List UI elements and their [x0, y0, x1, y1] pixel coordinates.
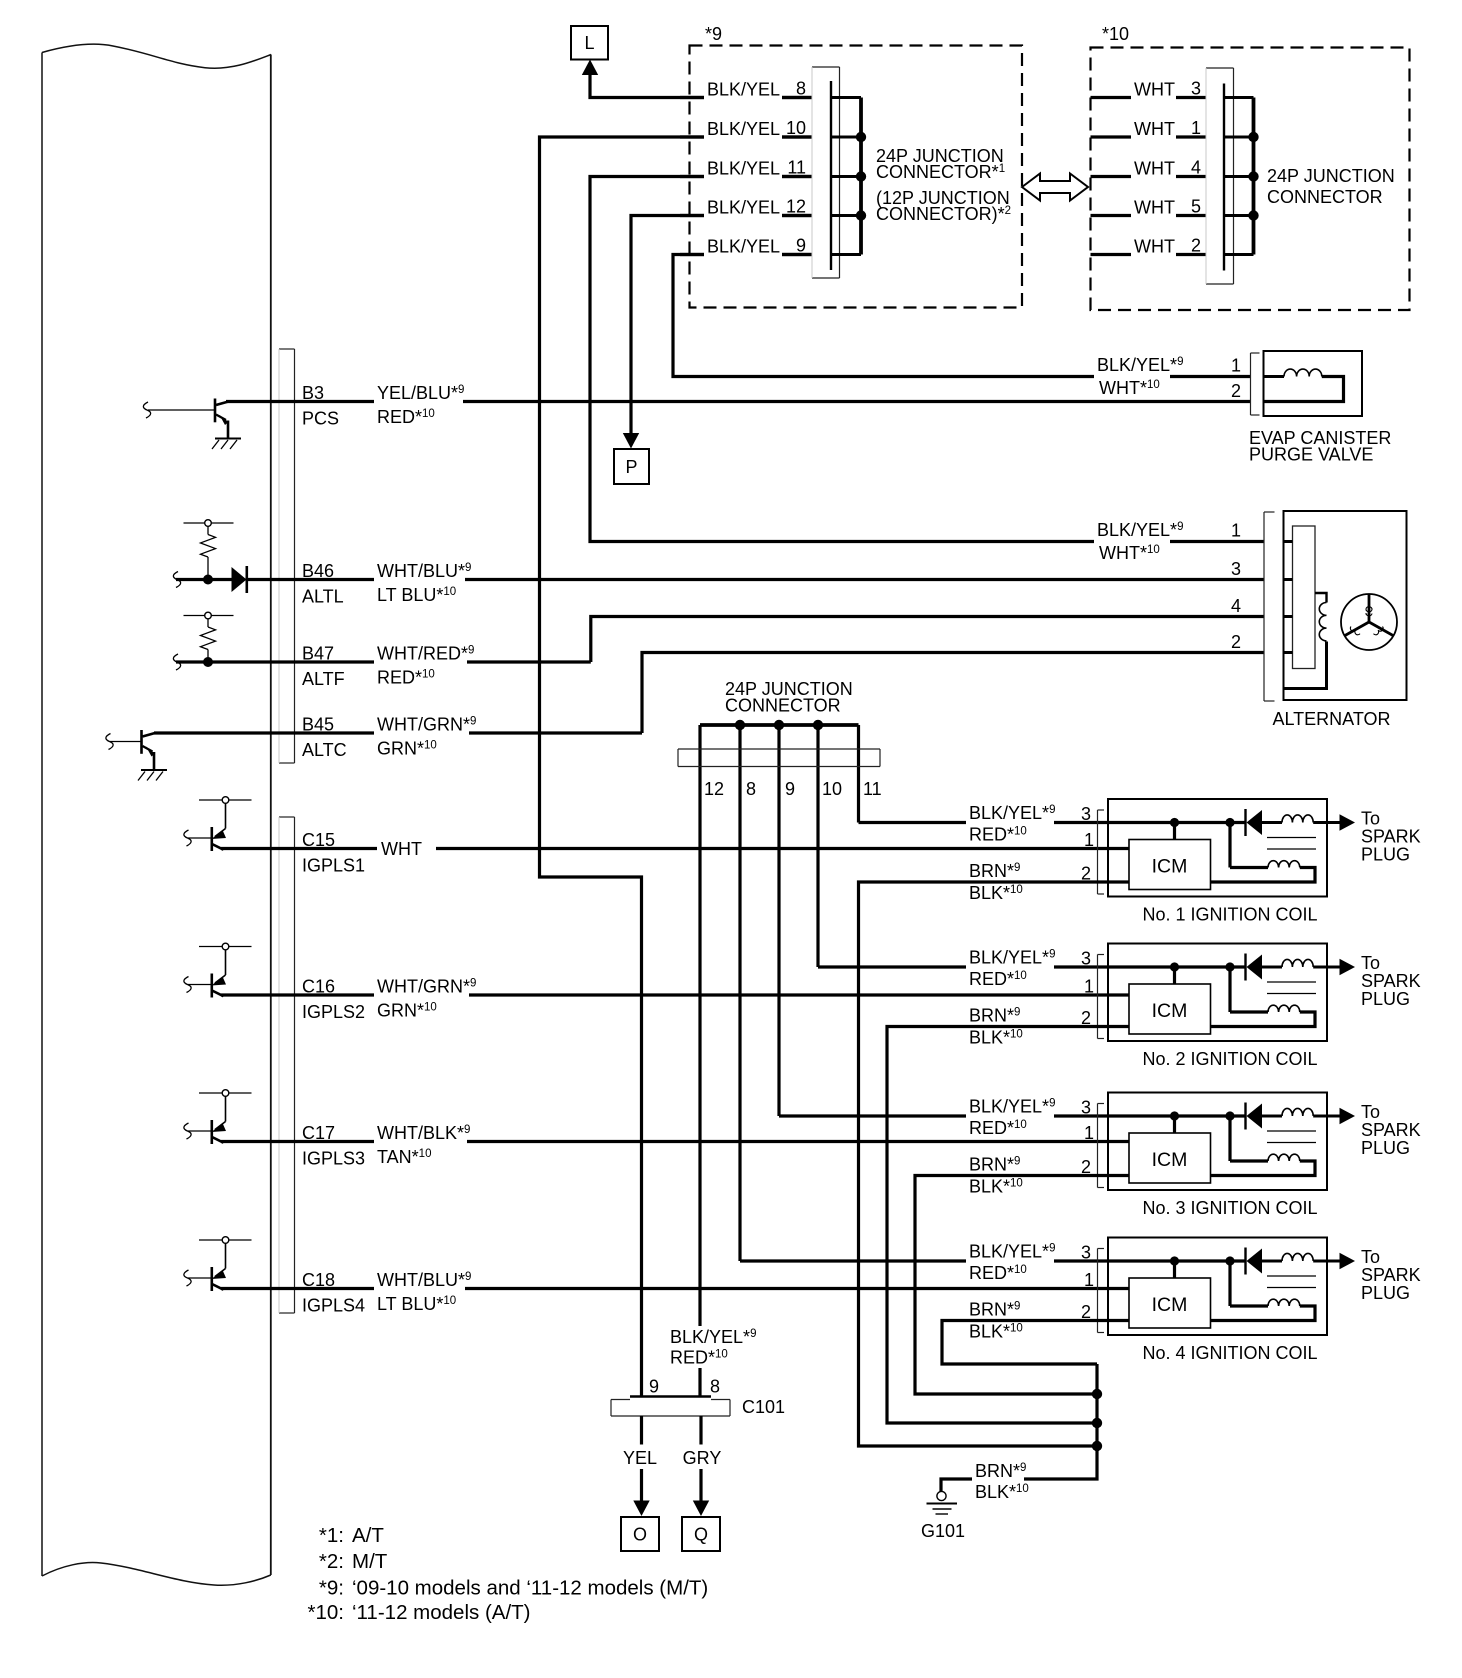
pin number 4 (alternator) — [1231, 596, 1241, 616]
pin number 3 (24P junction rh) — [1191, 79, 1201, 99]
diode (No.3 coil) — [1246, 1103, 1263, 1130]
harness continuation double arrow — [1022, 174, 1088, 201]
dashed harness box *9 — [690, 46, 1023, 308]
svg-text:11: 11 — [787, 158, 806, 178]
svg-text:WHT: WHT — [381, 839, 422, 859]
No.4 ignition coil connector bracket — [1098, 1249, 1105, 1333]
ECM pin label C15/IGPLS1 — [299, 829, 372, 876]
pin number 1 (No.1 coil) — [1084, 830, 1094, 850]
svg-text:WHT: WHT — [1134, 237, 1175, 257]
svg-text:To: To — [1361, 953, 1380, 973]
label No. 2 IGNITION COIL — [1142, 1049, 1317, 1069]
pin number 1 (alternator) — [1231, 521, 1241, 541]
connector O box — [621, 1517, 659, 1551]
svg-text:C15: C15 — [302, 830, 335, 850]
wire C16/IGPLS2 row to No.2 coil pin 1 — [221, 993, 1129, 996]
svg-text:1: 1 — [1084, 830, 1094, 850]
svg-text:SPARK: SPARK — [1361, 1265, 1421, 1285]
wire BLK/YEL pin 12 to connector P — [623, 216, 812, 449]
svg-text:3: 3 — [1191, 79, 1201, 99]
spark plug output arrow (No.4 coil) — [1327, 1253, 1355, 1269]
svg-text:BLK/YEL*9: BLK/YEL*9 — [969, 948, 1055, 968]
alternator field coil — [1284, 593, 1327, 689]
wire BLK/YEL pin 9 to EVAP purge valve pin 1 — [673, 255, 1251, 377]
No.4 ignition coil box — [1108, 1238, 1327, 1336]
label EVAP CANISTER PURGE VALVE — [1249, 428, 1391, 465]
transistor Q-B45 (ALTC driver) — [106, 730, 167, 781]
svg-text:‘11-12 models (A/T): ‘11-12 models (A/T) — [352, 1601, 530, 1624]
No.3 ignition coil connector bracket — [1098, 1104, 1105, 1188]
wire to connector L (BLK/YEL pin 8) — [582, 60, 812, 98]
No.1 ignition coil box — [1108, 799, 1327, 897]
pin number 12 (24P junction) — [786, 197, 806, 217]
svg-text:3: 3 — [1081, 1243, 1091, 1263]
pin number 1 (No.2 coil) — [1084, 977, 1094, 997]
wire junction pin 9 vertical — [777, 725, 780, 1116]
svg-text:IGPLS2: IGPLS2 — [302, 1002, 365, 1022]
svg-text:BLK/YEL*9: BLK/YEL*9 — [1097, 520, 1183, 540]
wire C15/IGPLS1 row to No.1 coil pin 1 — [221, 847, 1129, 850]
wire label BLK/YEL*9 / RED*10 (No.3 coil) — [966, 1096, 1055, 1138]
pin number 1 (No.3 coil) — [1084, 1123, 1094, 1143]
svg-text:WHT/RED*9: WHT/RED*9 — [377, 644, 474, 664]
junction bus bar (middle) — [700, 720, 859, 730]
wire B45 riser to alternator pin 2 — [642, 653, 1264, 734]
wire colour label WHT/BLU*9/LT BLU*10 (B46) — [374, 560, 471, 606]
svg-text:No. 2 IGNITION COIL: No. 2 IGNITION COIL — [1142, 1049, 1317, 1069]
EVAP purge valve connector bracket — [1251, 353, 1260, 415]
svg-text:WHT/BLK*9: WHT/BLK*9 — [377, 1123, 470, 1143]
wire label BLK/YEL (pin 11) — [704, 157, 782, 181]
24P junction connector housing (*9) — [812, 67, 840, 278]
svg-text:PLUG: PLUG — [1361, 845, 1410, 865]
wire C101 pin 8 to connector Q — [693, 1416, 709, 1516]
alternator connector bracket — [1264, 512, 1275, 701]
svg-text:1: 1 — [1084, 1270, 1094, 1290]
No.1 ignition coil connector bracket — [1098, 810, 1105, 894]
wire label WHT (pin 1) — [1131, 118, 1176, 142]
alternator regulator block — [1293, 526, 1316, 669]
pin number 12 (middle junction) — [704, 779, 724, 799]
svg-text:BRN*9: BRN*9 — [969, 1006, 1020, 1026]
svg-text:9: 9 — [796, 236, 806, 256]
label No. 4 IGNITION COIL — [1142, 1343, 1317, 1363]
24P junction connector housing (*10) — [1206, 68, 1234, 284]
No.2 ignition coil box — [1108, 944, 1327, 1042]
wire label WHT (pin 5) — [1131, 196, 1176, 220]
label 24P JUNCTION CONNECTOR (12P JUNCTION CONNECTOR) — [876, 146, 1011, 224]
junction bus bar (*9) — [831, 98, 866, 255]
svg-text:PCS: PCS — [302, 409, 339, 429]
secondary winding (No.3 coil) — [1211, 1116, 1316, 1176]
wire B47/ALTF row — [176, 660, 591, 663]
wire label WHT (pin 2) — [1131, 235, 1176, 259]
wire junction pin 11 vertical — [857, 725, 860, 823]
label No. 3 IGNITION COIL — [1142, 1198, 1317, 1218]
svg-text:SPARK: SPARK — [1361, 1120, 1421, 1140]
svg-text:G101: G101 — [921, 1521, 965, 1541]
svg-text:*9: *9 — [705, 24, 722, 44]
wire B47 riser to alternator pin 4 — [591, 617, 1264, 663]
label 24P JUNCTION CONNECTOR (right) — [1267, 166, 1395, 207]
svg-text:P: P — [625, 457, 637, 477]
svg-text:CONNECTOR: CONNECTOR — [1267, 187, 1383, 207]
label G101 — [921, 1521, 965, 1541]
No.3 ignition coil box — [1108, 1093, 1327, 1191]
primary winding (No.2 coil) — [1262, 959, 1327, 967]
core lines (No.4 coil) — [1267, 1276, 1316, 1288]
svg-text:1: 1 — [1231, 521, 1241, 541]
svg-text:IGPLS1: IGPLS1 — [302, 856, 365, 876]
wire colour label WHT/GRN*9/GRN*10 (C16) — [374, 975, 476, 1021]
svg-text:BLK/YEL*9: BLK/YEL*9 — [969, 1242, 1055, 1262]
ECM pin label C17/IGPLS3 — [299, 1122, 372, 1169]
primary winding (No.1 coil) — [1262, 815, 1327, 823]
label *10 — [1102, 24, 1129, 44]
wire label BRN*9 / BLK*10 (No.3 coil) — [966, 1155, 1032, 1197]
svg-text:YEL: YEL — [623, 1448, 657, 1468]
svg-text:1: 1 — [1084, 977, 1094, 997]
wire label YEL — [619, 1445, 662, 1470]
svg-text:ALTERNATOR: ALTERNATOR — [1272, 709, 1390, 729]
svg-text:8: 8 — [796, 79, 806, 99]
wire label BLK/YEL (pin 9) — [704, 235, 782, 259]
wire colour label WHT/RED*9/RED*10 (B47) — [374, 642, 474, 688]
24P junction connector housing (middle) — [678, 749, 880, 767]
ICM module (No.2 coil) — [1129, 984, 1211, 1034]
svg-text:SPARK: SPARK — [1361, 827, 1421, 847]
wire label BLK/YEL*9 / WHT*10 (alternator) — [1094, 520, 1183, 564]
ECM connector strip lower (C-row pins) — [279, 817, 295, 1313]
ICM module (No.1 coil) — [1129, 840, 1211, 890]
wire WHT junction pin 1 — [1091, 135, 1207, 138]
wire label BRN*9 / BLK*10 (No.1 coil) — [966, 861, 1032, 903]
wire No.1 coil feed — [859, 821, 1246, 824]
svg-text:A/T: A/T — [352, 1524, 384, 1547]
wire BLK/YEL junction pin 9 stub — [680, 253, 812, 256]
wire BLK/YEL junction pin 11 stub — [680, 175, 812, 178]
svg-text:B47: B47 — [302, 644, 334, 664]
svg-text:No. 4 IGNITION COIL: No. 4 IGNITION COIL — [1142, 1343, 1317, 1363]
resistor + pull-up, B46/ALTL sense — [173, 520, 233, 588]
pin number 3 (No.4 coil) — [1081, 1243, 1091, 1263]
svg-text:10: 10 — [822, 779, 842, 799]
primary winding (No.4 coil) — [1262, 1253, 1327, 1261]
core lines (No.3 coil) — [1267, 1131, 1316, 1143]
wire B46/ALTL row to alternator pin 3 — [176, 578, 1264, 581]
svg-text:9: 9 — [785, 779, 795, 799]
wire colour label WHT (C15) — [377, 837, 436, 860]
svg-text:3: 3 — [1081, 1098, 1091, 1118]
junction dots + ICM feed (No.2 coil) — [1170, 962, 1235, 984]
wire label BLK/YEL*9 / RED*10 (No.2 coil) — [966, 947, 1055, 989]
svg-text:WHT/GRN*9: WHT/GRN*9 — [377, 715, 476, 735]
label To SPARK PLUG (No.3) — [1361, 1102, 1421, 1158]
wire WHT junction pin 4 — [1091, 175, 1207, 178]
wire BLK/YEL junction pin 8 stub — [680, 96, 812, 99]
wire label BLK/YEL*9 / RED*10 (C101 feed) — [667, 1326, 764, 1368]
wire WHT junction pin 3 — [1091, 96, 1207, 99]
svg-text:WHT/BLU*9: WHT/BLU*9 — [377, 1270, 471, 1290]
connector L box — [571, 26, 608, 60]
pin number 9 (24P junction) — [796, 236, 806, 256]
svg-text:12: 12 — [786, 197, 806, 217]
svg-text:4: 4 — [1231, 596, 1241, 616]
pin number 5 (24P junction rh) — [1191, 197, 1201, 217]
spark plug output arrow (No.1 coil) — [1327, 814, 1355, 830]
wire label BRN*9 / BLK*10 (G101) — [972, 1461, 1032, 1502]
svg-text:4: 4 — [1191, 158, 1201, 178]
svg-text:8: 8 — [746, 779, 756, 799]
wire BRN return No.2 coil — [887, 1027, 1129, 1424]
svg-text:BRN*9: BRN*9 — [969, 861, 1020, 881]
svg-text:BRN*9: BRN*9 — [975, 1461, 1026, 1481]
wire No.3 coil feed — [779, 1114, 1245, 1117]
svg-text:WHT: WHT — [1134, 198, 1175, 218]
transistor Q-C18 (IGPLS4) — [184, 1237, 252, 1291]
svg-text:WHT: WHT — [1134, 159, 1175, 179]
label 24P JUNCTION CONNECTOR (middle) — [725, 679, 853, 716]
primary winding (No.3 coil) — [1262, 1108, 1327, 1116]
svg-text:C18: C18 — [302, 1270, 335, 1290]
pin number 2 (No.4 coil) — [1081, 1302, 1091, 1322]
pin number 2 (24P junction rh) — [1191, 236, 1201, 256]
svg-text:ALTF: ALTF — [302, 669, 345, 689]
secondary winding (No.2 coil) — [1211, 967, 1316, 1027]
pin number 2 (No.2 coil) — [1081, 1008, 1091, 1028]
svg-text:BLK/YEL: BLK/YEL — [707, 119, 780, 139]
pin number 3 (No.2 coil) — [1081, 949, 1091, 969]
pin number 10 (middle junction) — [822, 779, 842, 799]
svg-text:IGPLS4: IGPLS4 — [302, 1296, 365, 1316]
ICM module (No.4 coil) — [1129, 1278, 1211, 1328]
svg-text:YEL/BLU*9: YEL/BLU*9 — [377, 383, 464, 403]
wire colour label YEL/BLU*9/RED*10 (B3) — [374, 382, 464, 428]
core lines (No.2 coil) — [1267, 982, 1316, 994]
wire label BRN*9 / BLK*10 (No.2 coil) — [966, 1006, 1032, 1048]
ground bus junction dots — [1092, 1389, 1102, 1451]
core lines (No.1 coil) — [1267, 838, 1316, 850]
svg-text:L: L — [584, 33, 594, 53]
svg-text:PLUG: PLUG — [1361, 989, 1410, 1009]
label ALTERNATOR — [1272, 709, 1390, 729]
wire label WHT (pin 3) — [1131, 78, 1176, 102]
pin number 2 (alternator) — [1231, 632, 1241, 652]
svg-text:O: O — [633, 1525, 647, 1545]
connector P box — [614, 449, 649, 484]
svg-text:C101: C101 — [742, 1397, 785, 1417]
svg-text:11: 11 — [863, 779, 882, 799]
spark plug output arrow (No.2 coil) — [1327, 959, 1355, 975]
svg-text:PLUG: PLUG — [1361, 1283, 1410, 1303]
svg-text:C17: C17 — [302, 1123, 335, 1143]
junction dots + ICM feed (No.4 coil) — [1170, 1256, 1235, 1278]
svg-text:‘09-10 models and ‘11-12 model: ‘09-10 models and ‘11-12 models (M/T) — [352, 1577, 708, 1600]
wire label BLK/YEL (pin 8) — [704, 78, 782, 102]
wire label BLK/YEL (pin 10) — [704, 118, 782, 142]
wire BLK/YEL pin 10 down-route with jog — [540, 137, 813, 1397]
wire colour label WHT/GRN*9/GRN*10 (B45) — [374, 713, 476, 759]
transistor Q-C16 (IGPLS2) — [184, 943, 252, 997]
label To SPARK PLUG (No.4) — [1361, 1247, 1421, 1303]
wire label BRN*9 / BLK*10 (No.4 coil) — [966, 1300, 1032, 1342]
svg-text:Q: Q — [694, 1525, 708, 1545]
pin number 2 (No.3 coil) — [1081, 1157, 1091, 1177]
wire C17/IGPLS3 row to No.3 coil pin 1 — [221, 1140, 1129, 1143]
svg-text:8: 8 — [710, 1377, 720, 1397]
wire junction pin 12 vertical — [698, 725, 701, 1397]
wire junction pin 8 vertical — [738, 725, 741, 1261]
ECM pin label B46/ALTL — [299, 560, 372, 607]
connector C101 — [611, 1397, 730, 1417]
svg-text:ICM: ICM — [1152, 856, 1188, 878]
wire BRN return No.3 coil — [915, 1176, 1129, 1395]
EVAP canister purge valve (solenoid) — [1264, 351, 1363, 416]
ground G101 symbol — [927, 1491, 958, 1514]
transistor Q-C17 (IGPLS3) — [184, 1090, 252, 1144]
wire label BLK/YEL*9 / RED*10 (No.1 coil) — [966, 803, 1055, 845]
diode (No.1 coil) — [1246, 809, 1263, 836]
pin number 2 (No.1 coil) — [1081, 864, 1091, 884]
label *9 — [705, 24, 722, 44]
svg-text:BLK/YEL*9: BLK/YEL*9 — [670, 1327, 756, 1347]
svg-text:*10: *10 — [1102, 24, 1129, 44]
svg-text:1: 1 — [1191, 118, 1201, 138]
ECM pin label B45/ALTC — [299, 713, 372, 760]
spark plug output arrow (No.3 coil) — [1327, 1108, 1355, 1124]
svg-text:BLK/YEL: BLK/YEL — [707, 80, 780, 100]
wire label WHT (pin 4) — [1131, 157, 1176, 181]
svg-text:1: 1 — [1231, 356, 1241, 376]
svg-text:BRN*9: BRN*9 — [969, 1300, 1020, 1320]
ECM connector strip upper (B-row pins) — [279, 349, 295, 763]
wire label BLK/YEL*9 / RED*10 (No.4 coil) — [966, 1241, 1055, 1283]
svg-text:No. 3 IGNITION COIL: No. 3 IGNITION COIL — [1142, 1198, 1317, 1218]
secondary winding (No.1 coil) — [1211, 823, 1316, 883]
svg-text:24P JUNCTION: 24P JUNCTION — [1267, 166, 1395, 186]
alternator stator/rotor symbol — [1341, 594, 1397, 650]
svg-text:BLK/YEL: BLK/YEL — [707, 159, 780, 179]
ECM pin label C18/IGPLS4 — [299, 1269, 372, 1316]
svg-text:B45: B45 — [302, 715, 334, 735]
pin number 10 (24P junction) — [786, 118, 806, 138]
svg-text:9: 9 — [649, 1377, 659, 1397]
svg-text:*9:: *9: — [319, 1577, 344, 1600]
svg-text:WHT: WHT — [1134, 80, 1175, 100]
svg-text:2: 2 — [1191, 236, 1201, 256]
label To SPARK PLUG (No.1) — [1361, 809, 1421, 865]
pin number 11 (24P junction) — [787, 158, 806, 178]
wire BLK/YEL junction pin 12 stub — [680, 214, 812, 217]
footnote *10 models — [308, 1601, 531, 1624]
svg-text:B46: B46 — [302, 561, 334, 581]
svg-text:No. 1 IGNITION COIL: No. 1 IGNITION COIL — [1142, 905, 1317, 925]
pin number 1 (24P junction rh) — [1191, 118, 1201, 138]
wire WHT junction pin 5 — [1091, 214, 1207, 217]
wire BRN return No.4 coil — [942, 1321, 1129, 1365]
wire colour label WHT/BLU*9/LT BLU*10 (C18) — [374, 1269, 471, 1315]
svg-text:BLK/YEL: BLK/YEL — [707, 198, 780, 218]
svg-text:*1:: *1: — [319, 1524, 344, 1547]
wire BRN return No.1 coil — [859, 882, 1130, 1446]
ECM pin label B3/PCS — [299, 382, 372, 429]
svg-text:IGPLS3: IGPLS3 — [302, 1149, 365, 1169]
diode (No.2 coil) — [1246, 954, 1263, 981]
svg-text:CONNECTOR)*2: CONNECTOR)*2 — [876, 204, 1011, 224]
diode (No.4 coil) — [1246, 1248, 1263, 1275]
junction dots + ICM feed (No.3 coil) — [1170, 1111, 1235, 1133]
wire No.4 coil feed — [740, 1259, 1245, 1262]
pin number 4 (24P junction rh) — [1191, 158, 1201, 178]
ECM pin label B47/ALTF — [299, 642, 372, 689]
wire C18/IGPLS4 row to No.4 coil pin 1 — [221, 1287, 1129, 1290]
pin number 1 (No.4 coil) — [1084, 1270, 1094, 1290]
wire colour label WHT/BLK*9/TAN*10 (C17) — [374, 1122, 470, 1168]
No.2 ignition coil connector bracket — [1098, 955, 1105, 1039]
svg-text:3: 3 — [1081, 949, 1091, 969]
label No. 1 IGNITION COIL — [1142, 905, 1317, 925]
wire B45/ALTC row — [154, 731, 642, 734]
pin number 1 (purge valve) — [1231, 356, 1241, 376]
svg-text:GRY: GRY — [683, 1448, 722, 1468]
svg-text:2: 2 — [1231, 381, 1241, 401]
svg-text:PLUG: PLUG — [1361, 1138, 1410, 1158]
wire label BLK/YEL (pin 12) — [704, 196, 782, 220]
junction bus bar (*10) — [1224, 98, 1259, 255]
svg-text:BLK/YEL*9: BLK/YEL*9 — [969, 803, 1055, 823]
svg-text:ALTL: ALTL — [302, 587, 344, 607]
pin number 8 (C101) — [710, 1377, 720, 1397]
transistor Q-C15 (IGPLS1) — [184, 797, 252, 851]
secondary winding (No.4 coil) — [1211, 1261, 1316, 1321]
dashed harness box *10 — [1091, 48, 1410, 311]
footnote *2: M/T — [319, 1550, 388, 1573]
svg-text:SPARK: SPARK — [1361, 971, 1421, 991]
wire ground bus to G101 — [941, 1364, 1097, 1492]
svg-text:BLK/YEL: BLK/YEL — [707, 237, 780, 257]
wire C101 pin 9 to connector O — [633, 1416, 649, 1516]
svg-text:*10:: *10: — [308, 1601, 344, 1624]
wire BLK/YEL pin 11 to alternator pin 1 — [590, 177, 1264, 542]
svg-text:*2:: *2: — [319, 1550, 344, 1573]
wire label BLK/YEL*9 / WHT*10 (purge valve) — [1094, 355, 1183, 399]
svg-text:BLK/YEL*9: BLK/YEL*9 — [1097, 355, 1183, 375]
svg-text:PURGE VALVE: PURGE VALVE — [1249, 445, 1373, 465]
footnote *9 models — [319, 1577, 708, 1600]
svg-text:To: To — [1361, 1102, 1380, 1122]
svg-text:CONNECTOR*1: CONNECTOR*1 — [876, 162, 1005, 182]
resistor + pull-up, B47/ALTF sense — [173, 612, 233, 670]
svg-text:CONNECTOR: CONNECTOR — [725, 696, 841, 716]
svg-text:To: To — [1361, 1247, 1380, 1267]
svg-text:C16: C16 — [302, 977, 335, 997]
svg-text:1: 1 — [1084, 1123, 1094, 1143]
pin number 3 (No.1 coil) — [1081, 804, 1091, 824]
wire WHT junction pin 2 — [1091, 253, 1207, 256]
svg-text:BLK/YEL*9: BLK/YEL*9 — [969, 1097, 1055, 1117]
pin number 8 (24P junction) — [796, 79, 806, 99]
junction dots + ICM feed (No.1 coil) — [1170, 818, 1235, 840]
diode D-B46 — [232, 566, 247, 593]
pin number 8 (middle junction) — [746, 779, 756, 799]
label C101 — [742, 1397, 785, 1417]
svg-text:2: 2 — [1231, 632, 1241, 652]
svg-text:5: 5 — [1191, 197, 1201, 217]
wire B3/PCS row to EVAP purge valve pin 2 — [226, 400, 1251, 403]
svg-text:3: 3 — [1231, 559, 1241, 579]
ECM pin label C16/IGPLS2 — [299, 975, 372, 1022]
pin number 3 (No.3 coil) — [1081, 1098, 1091, 1118]
